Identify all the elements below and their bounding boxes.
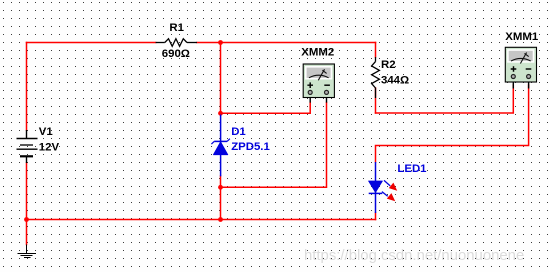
svg-text:D1: D1 bbox=[231, 126, 246, 138]
svg-text:LED1: LED1 bbox=[397, 163, 427, 175]
svg-text:R1: R1 bbox=[169, 22, 184, 34]
svg-text:XMM2: XMM2 bbox=[301, 47, 334, 59]
svg-text:R2: R2 bbox=[381, 59, 396, 71]
svg-text:12V: 12V bbox=[39, 141, 60, 153]
svg-text:344Ω: 344Ω bbox=[381, 74, 409, 86]
svg-text:XMM1: XMM1 bbox=[505, 31, 539, 43]
svg-text:690Ω: 690Ω bbox=[162, 48, 190, 60]
svg-text:ZPD5.1: ZPD5.1 bbox=[231, 141, 270, 153]
svg-text:V1: V1 bbox=[39, 126, 54, 138]
